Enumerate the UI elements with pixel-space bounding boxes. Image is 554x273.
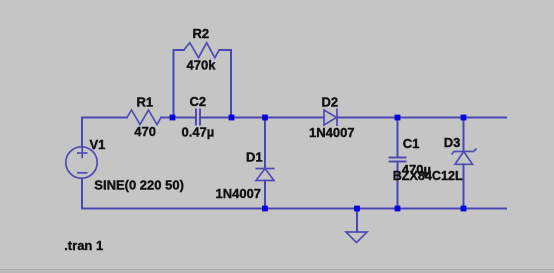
node: R1/C2/R2 junction	[170, 115, 176, 121]
svg-text:D1: D1	[246, 150, 263, 165]
wire: D3 top lead	[463, 118, 465, 152]
zener diode D3	[452, 149, 477, 165]
wire: main rail left segment (corner to R1)	[82, 117, 127, 119]
diode D1	[256, 169, 275, 181]
node: ground junction	[354, 206, 360, 212]
wire: R1 right lead to node	[161, 117, 174, 119]
wire: D1 bottom (anode down to bottom rail)	[264, 181, 266, 209]
node: D3 top junction	[461, 115, 467, 121]
ground	[346, 232, 367, 243]
svg-text:C2: C2	[190, 94, 207, 109]
wire: D2 cathode to C1 node	[337, 117, 398, 119]
node: C1 bottom junction	[395, 206, 401, 212]
wire: ground stub	[356, 209, 358, 233]
resistor R1	[127, 110, 161, 125]
wire: C1 node to D3 node	[398, 117, 464, 119]
wire: R2 top leads	[174, 49, 184, 51]
wire: bottom rail	[82, 208, 506, 210]
svg-text:1N4007: 1N4007	[216, 186, 262, 201]
wire: node to D2 anode	[232, 117, 325, 119]
wire: R2 right leg	[230, 50, 232, 118]
wire: C1 bottom lead	[397, 162, 399, 209]
svg-text:470k: 470k	[187, 58, 217, 73]
wire: node to C2 left plate	[174, 117, 197, 119]
voltage source V1	[66, 147, 97, 178]
svg-text:470: 470	[134, 124, 156, 139]
node: D3 bottom junction	[461, 206, 467, 212]
svg-text:SINE(0 220 50): SINE(0 220 50)	[94, 178, 184, 193]
svg-text:D3: D3	[444, 135, 461, 150]
node: C2/R2 right junction	[229, 115, 235, 121]
bottom window edge strip	[0, 270, 554, 273]
wire: R2 left leg	[173, 50, 175, 118]
svg-text:R1: R1	[137, 95, 154, 110]
diode D2	[324, 109, 337, 127]
wire: D3 node to right end	[464, 117, 507, 119]
capacitor C1	[389, 158, 407, 162]
wire: left vertical (top corner down to V1 top)	[81, 118, 83, 148]
wire: D1 top (rail down to cathode bar)	[264, 118, 266, 169]
node: D1 top junction	[262, 115, 268, 121]
svg-text:D2: D2	[322, 95, 339, 110]
wire: D3 bottom lead	[463, 164, 465, 208]
svg-text:1N4007: 1N4007	[309, 125, 355, 140]
capacitor C2	[196, 109, 200, 126]
wire: C1 top lead	[397, 118, 399, 158]
resistor R2	[184, 43, 219, 58]
node: D1 bottom junction	[262, 206, 268, 212]
svg-text:0.47µ: 0.47µ	[182, 124, 215, 139]
node: D2/C1 top junction	[395, 115, 401, 121]
wire: V1 bottom to bottom-left corner	[81, 179, 83, 209]
svg-text:R2: R2	[193, 26, 210, 41]
svg-text:.tran 1: .tran 1	[64, 238, 103, 253]
svg-text:BZX84C12L: BZX84C12L	[393, 169, 463, 183]
svg-text:C1: C1	[403, 136, 420, 151]
wire: C2 right plate to node	[200, 117, 232, 119]
svg-text:V1: V1	[90, 137, 106, 152]
